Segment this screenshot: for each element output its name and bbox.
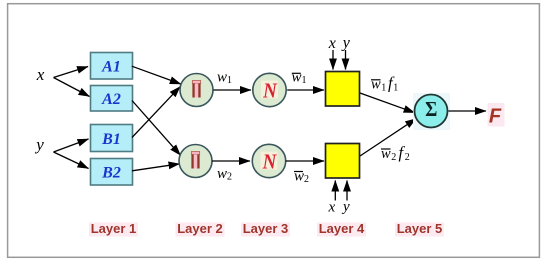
wire x to A2: [54, 78, 90, 97]
svg-text:w: w: [371, 77, 381, 93]
label Layer 1: [89, 221, 138, 237]
box B2: [91, 159, 133, 186]
box B1: [91, 125, 133, 152]
wire B2 to P2: [132, 164, 180, 171]
wire Sigma to F: [449, 110, 487, 112]
wire square2 to Sigma, label wbar2 f2: [360, 119, 416, 156]
wire y to B1: [54, 139, 89, 152]
svg-text:1: 1: [381, 83, 386, 94]
svg-text:w: w: [381, 146, 391, 162]
svg-text:B1: B1: [101, 131, 121, 148]
svg-text:y: y: [341, 35, 351, 52]
svg-text:x: x: [328, 35, 336, 52]
wire A2 to P2: [132, 101, 181, 156]
output node F: [488, 103, 505, 128]
wire x to A1: [54, 67, 89, 78]
wire x down into square1: [332, 50, 334, 70]
svg-text:Σ: Σ: [425, 98, 437, 121]
box A1: [91, 53, 133, 80]
label Layer 5: [395, 221, 444, 237]
svg-text:Layer 4: Layer 4: [319, 221, 365, 236]
svg-text:x: x: [327, 199, 335, 215]
svg-text:w1: w1: [292, 69, 307, 86]
square rule node 2: [326, 144, 360, 179]
wire P2 to N2, label w2: [212, 160, 250, 162]
svg-text:2: 2: [391, 152, 396, 163]
wire y up into square2: [346, 181, 348, 201]
svg-text:w2: w2: [294, 168, 309, 185]
wire square1 to Sigma, label wbar1 f1: [360, 93, 415, 113]
svg-text:Layer 3: Layer 3: [243, 221, 289, 236]
wire y to B2: [54, 152, 89, 169]
svg-text:N: N: [262, 151, 278, 174]
svg-text:B2: B2: [101, 165, 121, 182]
square rule node 1: [326, 72, 360, 107]
wire A1 to P1: [132, 66, 181, 84]
svg-text:w2: w2: [217, 166, 232, 183]
wire y down into square1: [345, 50, 347, 70]
wire x up into square2: [334, 181, 336, 201]
svg-text:Layer 1: Layer 1: [91, 221, 137, 236]
wire B1 to P1: [132, 87, 180, 138]
svg-text:Layer 2: Layer 2: [177, 221, 223, 236]
svg-text:1: 1: [393, 83, 398, 94]
svg-text:2: 2: [405, 152, 410, 163]
product node P2: [179, 145, 212, 178]
svg-text:F: F: [489, 106, 502, 128]
norm node N1: [253, 73, 286, 106]
box A2: [91, 86, 133, 112]
svg-text:y: y: [34, 135, 44, 154]
label Layer 4: [317, 221, 366, 237]
product node P1: [180, 74, 213, 107]
norm node N2: [252, 144, 285, 177]
wire N1 to square1, label wbar1: [287, 89, 324, 91]
wire P1 to N1, label w1: [214, 89, 252, 91]
svg-text:Layer 5: Layer 5: [397, 221, 443, 236]
svg-text:w1: w1: [217, 69, 232, 86]
svg-text:N: N: [262, 80, 278, 103]
label Layer 2: [176, 221, 225, 237]
svg-text:A2: A2: [101, 91, 121, 108]
label Layer 3: [241, 221, 290, 237]
svg-text:y: y: [341, 199, 350, 215]
wire N2 to square2, label wbar2: [286, 160, 324, 162]
sum node Sigma: [413, 93, 450, 130]
svg-text:x: x: [36, 65, 45, 84]
svg-text:A1: A1: [101, 59, 121, 76]
